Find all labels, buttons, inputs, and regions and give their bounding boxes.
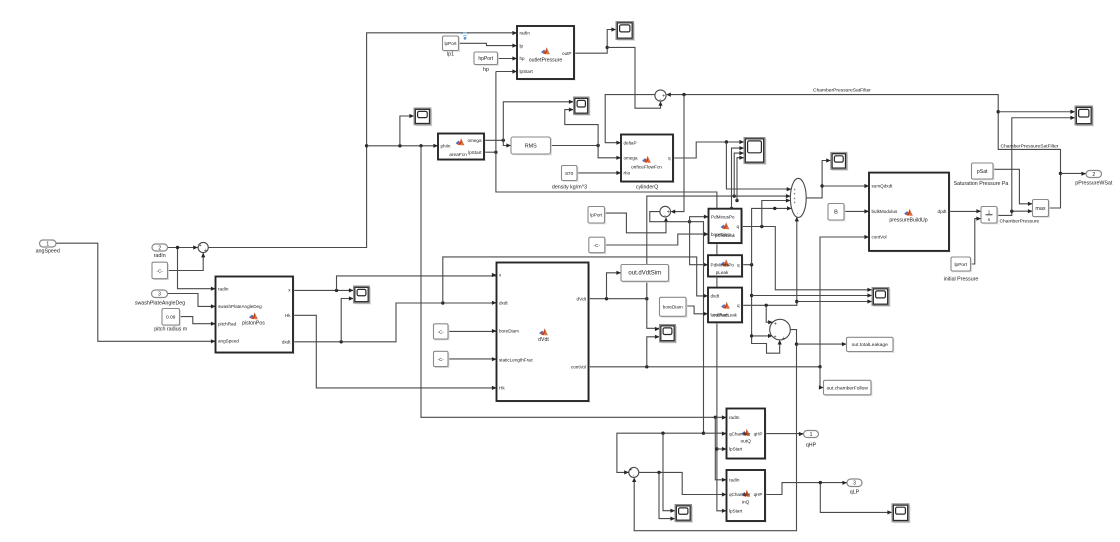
svg-text:dpdt: dpdt: [938, 209, 948, 214]
svg-text:+: +: [199, 243, 202, 249]
svg-text:B: B: [834, 210, 838, 216]
wire constant -C- to sum Add1 bottom: [168, 253, 204, 271]
MATLAB Function pressureBuildUp: [871, 174, 951, 252]
svg-text:-: -: [659, 96, 661, 102]
svg-text:RMS: RMS: [525, 143, 537, 149]
MATLAB Function outletPressure: [519, 28, 576, 81]
scope4 big 4-channel: [745, 139, 766, 165]
wire B constant to pressureBuildUp.bulkModulus: [844, 210, 869, 212]
svg-text:lpStart: lpStart: [520, 69, 534, 74]
wire q3 from outRadLeak to ellipse bottom, scope8 ch3 and sum3: [742, 219, 797, 305]
svg-text:lenCham: lenCham: [711, 313, 730, 318]
svg-text:lpStart: lpStart: [468, 150, 482, 155]
wire PdMinusPo from sum2 out to pChLeak/pLeak inputs and qChamber trunk: [650, 212, 690, 222]
wire constant -C- to pChLeak.boreDiam: [605, 234, 709, 245]
svg-text:swashPlateAngleDeg: swashPlateAngleDeg: [135, 300, 185, 306]
svg-text:qChamber: qChamber: [729, 492, 751, 497]
inport 3 swashPlateAngleDeg: [152, 290, 168, 298]
svg-text:lpStart: lpStart: [729, 509, 743, 514]
svg-text:hp: hp: [520, 56, 526, 61]
svg-text:pistonPos: pistonPos: [242, 321, 265, 327]
To-workspace out.chamberFollow: [825, 382, 873, 397]
scope3 phi: [415, 109, 432, 126]
wire qHP from outQ to outport 1: [765, 433, 804, 435]
wire totalLeakage from sum3 out to out.totalLeakage and sum4 bottom: [634, 330, 796, 531]
wire q from cylinderQ to big scope4 ch1 and ellipse sum in1: [673, 142, 744, 158]
wire boreDiam constant to outRadLeak.lenCham: [686, 306, 708, 314]
svg-text:-: -: [633, 473, 635, 479]
svg-text:q: q: [668, 156, 671, 161]
wire ChamberPressureSatFilter feedback from max out to sum1/outport2/scope9: [668, 95, 1060, 208]
svg-text:outP: outP: [562, 51, 571, 56]
svg-text:pitchRad: pitchRad: [218, 321, 237, 326]
MATLAB Function pLeak: [710, 257, 744, 278]
RMS block: [512, 138, 552, 155]
svg-text:boreDiam: boreDiam: [663, 305, 683, 310]
MATLAB Function pistonPos: [217, 278, 295, 354]
svg-text:angSpeed: angSpeed: [36, 249, 60, 255]
svg-text:ChamberPressureSatFilter: ChamberPressureSatFilter: [1001, 143, 1059, 149]
svg-text:-C-: -C-: [157, 268, 164, 273]
svg-text:contVol: contVol: [571, 365, 586, 370]
scope8 leakage 3-channel: [873, 289, 890, 307]
svg-text:dxdt: dxdt: [711, 294, 720, 299]
scope10 q flows: [676, 506, 693, 523]
svg-text:lp: lp: [520, 43, 524, 48]
svg-text:1: 1: [46, 241, 49, 247]
svg-text:outletPressure: outletPressure: [529, 58, 563, 64]
outport 2 pPressureWSat: [1086, 171, 1102, 178]
inport 1 angSpeed: [40, 240, 57, 247]
svg-text:deltaP: deltaP: [624, 140, 637, 145]
svg-text:lpPort: lpPort: [954, 262, 967, 268]
wire sumQdxdt from ellipse sum to pressureBuildUp and scope5: [806, 161, 831, 198]
wire q1 from pChLeak to ellipse in4, scope8 ch1 and big scope4 ch4: [742, 227, 873, 290]
svg-text:+: +: [667, 209, 670, 215]
svg-text:qHP: qHP: [806, 442, 817, 448]
wire contVol from dVdt to pressureBuildUp.contVol, scope7 ch2 and out.chamberFollow: [589, 237, 870, 367]
svg-text:boreDiam: boreDiam: [711, 232, 731, 237]
svg-text:hpPort: hpPort: [478, 56, 493, 62]
svg-text:pPressureWSat: pPressureWSat: [1075, 180, 1113, 186]
wire RMS out to cylinderQ.omega and scope2 ch2: [551, 145, 599, 147]
svg-text:out.dVdtSim: out.dVdtSim: [628, 271, 661, 277]
svg-text:q: q: [736, 224, 739, 229]
MATLAB Function outRadLeak: [710, 289, 744, 324]
svg-text:3: 3: [158, 292, 161, 298]
hpPort constant: [475, 53, 499, 66]
MATLAB Function cylinderQ orificeFlowFcn: [623, 136, 675, 183]
wire pSat to max.in1: [993, 169, 1033, 204]
svg-text:initial Pressure: initial Pressure: [944, 277, 979, 283]
svg-text:ChamberPressureSatFilter: ChamberPressureSatFilter: [813, 88, 871, 94]
svg-text:bulkModulus: bulkModulus: [872, 209, 898, 214]
wire pitch radius 0.09 to pistonPos.pitchRad: [180, 317, 216, 324]
integrator 1/s ChamberPressure: [982, 208, 998, 225]
max block: [1034, 201, 1050, 218]
svg-text:-C-: -C-: [594, 243, 601, 248]
wire hpPort to outletPressure.hp: [498, 58, 518, 60]
svg-text:qHP: qHP: [754, 492, 763, 497]
constant 0.09 pitch radius: [163, 310, 181, 327]
wire initial Pressure to integrator x0: [971, 219, 982, 264]
svg-text:pLeak: pLeak: [716, 270, 729, 275]
wire phi branch down to outQ.radIn and inQ.radIn: [421, 146, 727, 418]
wire deltaP from sum1 out to cylinderQ.deltaP: [605, 95, 655, 143]
wire radIn from inport 2 to sum Add1 and pistonPos.radIn: [167, 247, 198, 249]
svg-text:out.chamberFollow: out.chamberFollow: [827, 385, 869, 391]
svg-text:2: 2: [1092, 172, 1095, 178]
sum2 PdMinusPo: [660, 206, 671, 217]
wire lp1 port to outletPressure.lp: [458, 43, 517, 45]
svg-text:omega: omega: [467, 138, 481, 143]
svg-text:+: +: [204, 248, 207, 254]
inport 2 radIn: [152, 244, 168, 251]
lpPort constant lp1: [444, 37, 460, 52]
svg-text:lpStart: lpStart: [729, 447, 743, 452]
svg-text:Hk: Hk: [285, 313, 291, 318]
svg-text:cylinderQ: cylinderQ: [636, 185, 658, 191]
scope9 chamber pressure: [1076, 107, 1094, 126]
sum Add1 radIn+const: [198, 242, 208, 252]
outport 3 qLP: [847, 479, 862, 487]
pSat constant: [973, 164, 995, 180]
constant 870 density: [563, 167, 579, 182]
scope6 piston x/dxdt: [355, 287, 371, 304]
svg-text:out.totalLeakage: out.totalLeakage: [852, 342, 888, 348]
svg-text:hp: hp: [483, 67, 489, 73]
svg-text:lpPort: lpPort: [444, 41, 457, 46]
To-workspace out.totalLeakage: [848, 339, 895, 353]
wire constant -C- to dVdt.staticLengthFrac: [448, 358, 497, 360]
svg-text:max: max: [1035, 206, 1045, 212]
wire density 870 to cylinderQ.rho: [577, 172, 621, 174]
svg-text:qHP: qHP: [754, 431, 763, 436]
scope1 outletPressure: [617, 23, 635, 41]
svg-text:radIn: radIn: [154, 253, 166, 259]
svg-text:lpPort: lpPort: [590, 213, 603, 218]
svg-text:sumQdxdt: sumQdxdt: [872, 184, 894, 189]
wire ChamberPressure integrator out to max.in2 and scope9 ch2: [997, 211, 1033, 215]
svg-text:dxdt: dxdt: [282, 340, 291, 345]
svg-text:Hk: Hk: [499, 386, 505, 391]
svg-text:contVol: contVol: [872, 235, 887, 240]
To-workspace out.dVdtSim: [622, 266, 670, 283]
svg-text:pSat: pSat: [977, 169, 988, 175]
svg-text:3: 3: [853, 481, 856, 487]
svg-text:ChamberPressure: ChamberPressure: [1000, 219, 1040, 225]
svg-text:q: q: [737, 262, 740, 267]
MATLAB Function inQ: [728, 472, 767, 523]
wire dpdt from pressureBuildUp to integrator: [949, 210, 981, 212]
svg-text:radIn: radIn: [729, 478, 740, 483]
constant B bulk modulus: [829, 205, 845, 222]
svg-text:omega: omega: [624, 156, 638, 161]
lpPort constant mid: [589, 208, 606, 225]
svg-text:PdMinusPo: PdMinusPo: [711, 214, 735, 219]
wire q2 from pLeak to ellipse in4, scope8 ch2, big scope4 ch2 and sum3: [742, 265, 780, 354]
svg-text:orificeFlowFcn: orificeFlowFcn: [631, 165, 662, 171]
wire qLP from inQ to outport 3 and scope11: [765, 483, 847, 495]
lpPort constant initial Pressure: [952, 258, 972, 272]
svg-text:swashPlateAngleDeg: swashPlateAngleDeg: [218, 304, 262, 309]
svg-text:1: 1: [988, 210, 991, 216]
wire phi angle: sum Add1 out up to outletPressure.radIn trunk: [208, 33, 517, 248]
signal logging badge (blue): [462, 33, 469, 36]
constant -C- under radIn: [153, 264, 169, 281]
boreDiam constant: [661, 299, 688, 318]
svg-text:0.09: 0.09: [166, 315, 176, 321]
svg-text:radIn: radIn: [520, 31, 531, 36]
wire phi branch to scope3: [400, 116, 414, 146]
MATLAB Function dVdt: [498, 264, 590, 403]
wire x from pistonPos to scope6 and dVdt.x: [294, 289, 354, 291]
wire lpPort to sum2 bottom: [605, 213, 667, 233]
svg-text:density kg/m^3: density kg/m^3: [552, 184, 587, 190]
svg-text:staticLengthFrac: staticLengthFrac: [499, 357, 534, 362]
wire angSpeed from inport 1 to pistonPos.angSpeed: [56, 243, 216, 341]
svg-text:2: 2: [158, 245, 161, 251]
svg-text:-C-: -C-: [438, 357, 445, 362]
svg-text:angSpeed: angSpeed: [218, 339, 239, 344]
outport 1 qHP: [804, 431, 819, 438]
svg-text:+: +: [662, 93, 665, 99]
wire constant -C- to dVdt.boreDiam: [448, 330, 497, 332]
svg-text:dVdt: dVdt: [577, 296, 587, 301]
svg-text:pressureBuildUp: pressureBuildUp: [889, 218, 927, 224]
MATLAB Function pChLeak: [710, 210, 743, 244]
wire omega from areaFcn to scope2 and RMS: [484, 139, 503, 141]
MATLAB Function outQ: [728, 410, 767, 460]
wire qChamber trunk down to outQ.qChamber, sum4 and scope10: [617, 222, 704, 473]
svg-text:1: 1: [810, 432, 813, 438]
wire outP from outletPressure to scope1 and sum1 bottom: [574, 30, 616, 54]
wire Hk from pistonPos to dVdt.Hk: [294, 315, 497, 388]
svg-text:areaFcn: areaFcn: [449, 152, 467, 158]
svg-text:outQ: outQ: [740, 439, 751, 445]
scope2 omega/RMS: [575, 98, 591, 116]
svg-text:dxdt: dxdt: [499, 301, 508, 306]
wire dVdt output to out.dVdtSim, ellipse sum, big scope4 ch3 and scope7: [589, 298, 647, 300]
svg-text:inQ: inQ: [742, 500, 750, 506]
svg-text:pitch radius m: pitch radius m: [154, 326, 188, 332]
constant -C- boreDiam for dVdt: [435, 325, 450, 340]
svg-text:PdMinusPo: PdMinusPo: [711, 262, 735, 267]
MATLAB Function areaFcn: [440, 135, 486, 161]
svg-text:phiIn: phiIn: [441, 144, 451, 149]
scope11 qLP: [893, 505, 910, 523]
svg-text:boreDiam: boreDiam: [499, 328, 519, 333]
svg-text:Saturation Pressure Pa: Saturation Pressure Pa: [954, 181, 1009, 187]
sum4 chamber minus leakage: [629, 467, 639, 477]
svg-text:-: -: [664, 212, 666, 218]
svg-text:qLP: qLP: [850, 489, 860, 495]
svg-text:q: q: [737, 303, 740, 308]
svg-text:radIn: radIn: [729, 415, 740, 420]
wire sum4 out to inQ.qChamber and scope10 ch2: [639, 472, 727, 494]
svg-text:+: +: [774, 321, 777, 327]
svg-text:lp1: lp1: [447, 51, 454, 57]
sum1 chamber minus outlet: [655, 90, 666, 101]
svg-text:qChamber: qChamber: [729, 431, 751, 436]
svg-text:870: 870: [565, 171, 573, 177]
sum3 total leakage: [770, 319, 791, 340]
svg-text:dVdt: dVdt: [538, 337, 549, 343]
scope5 sumQdxdt: [832, 154, 848, 171]
svg-text:rho: rho: [624, 170, 631, 175]
svg-text:radIn: radIn: [218, 286, 229, 291]
svg-text:+: +: [773, 334, 776, 340]
wire phi branch to areaFcn.phiIn: [367, 145, 438, 147]
constant -C- staticLengthFrac for dVdt: [435, 353, 450, 368]
constant -C- mid: [590, 239, 606, 255]
ellipse sum of flows: [790, 178, 806, 217]
svg-text:+: +: [794, 200, 797, 205]
svg-text:+: +: [782, 336, 785, 342]
svg-text:-C-: -C-: [438, 329, 445, 334]
wire lpStart trunk from areaFcn.lpStart to outletPressure/outQ/inQ: [484, 151, 496, 153]
scope7 dVdt/contVol: [661, 326, 677, 344]
wire swashPlateAngleDeg from inport 3: [168, 294, 216, 307]
wire dxdt from pistonPos to scope6/dVdt.dxdt/outRadLeak.dxdt: [294, 303, 497, 342]
